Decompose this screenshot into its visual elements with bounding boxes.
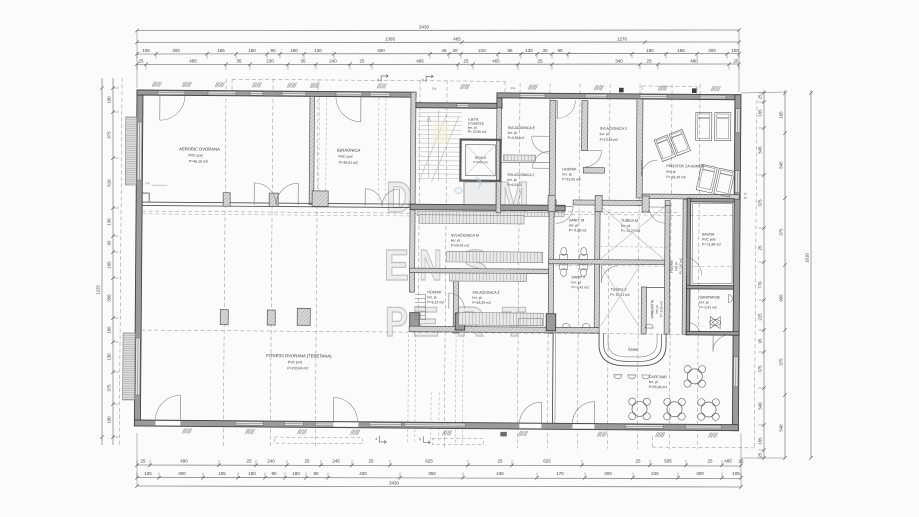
cups at bar: [614, 375, 622, 379]
svg-text:SAUNA: SAUNA: [702, 232, 715, 236]
staircase cut line: [419, 114, 447, 180]
window top wall: [208, 91, 236, 95]
svg-text:130: 130: [314, 48, 322, 53]
svg-text:180: 180: [646, 48, 654, 53]
wall hodnik west / svlacionica E-2 east: [549, 100, 556, 205]
svg-text:FITNESS DVORANA (TERETANA): FITNESS DVORANA (TERETANA): [266, 353, 332, 359]
wall bracket left: [142, 193, 149, 202]
svg-text:905: 905: [779, 294, 784, 302]
dashed offset line right of building: [754, 100, 757, 448]
svg-text:245: 245: [332, 459, 340, 464]
stairs in hodnik lower left: [415, 293, 425, 295]
svg-text:230: 230: [266, 59, 274, 64]
svg-text:300: 300: [696, 471, 704, 476]
cafe table: [632, 401, 647, 416]
svg-text:300: 300: [708, 48, 716, 53]
lounge chair pair B: [654, 129, 690, 161]
lounge chair pair C: [696, 164, 735, 197]
elevator DIZALO shaft: [460, 140, 500, 181]
svg-text:P= 8,28 m2: P= 8,28 m2: [569, 228, 587, 232]
svg-text:430: 430: [359, 471, 367, 476]
svg-text:3430: 3430: [419, 25, 430, 30]
svg-text:SPREMIŠTE: SPREMIŠTE: [649, 299, 654, 319]
svg-text:15a: 15a: [511, 86, 516, 90]
svg-text:25: 25: [707, 459, 713, 464]
dashed pair lines igraonica east: [377, 98, 380, 202]
faint blue scan mark 2: [475, 178, 481, 189]
window top wall: [250, 92, 263, 96]
door tusevi area: [649, 206, 665, 208]
svg-text:P=9,56 m2: P=9,56 m2: [508, 136, 525, 140]
svg-text:P= 20,66 m2: P= 20,66 m2: [468, 130, 487, 134]
svg-text:375: 375: [779, 358, 784, 366]
svg-text:375: 375: [758, 365, 763, 373]
svg-text:20: 20: [452, 48, 458, 53]
exterior wall right: [732, 95, 741, 431]
toilet sanit M 2: [580, 254, 588, 259]
faint blue scan mark: [454, 187, 462, 193]
svg-text:SANIT Ž: SANIT Ž: [572, 274, 587, 279]
window bottom wall: [625, 425, 663, 429]
wall column: [455, 313, 465, 330]
cafe table: [701, 402, 716, 417]
svg-text:HODNIK: HODNIK: [427, 290, 442, 294]
svg-text:130: 130: [525, 48, 533, 53]
window right wall upper: [735, 109, 740, 133]
svg-text:25: 25: [537, 59, 543, 64]
svg-text:485: 485: [724, 459, 732, 464]
svg-text:ker. pl.: ker. pl.: [655, 304, 659, 313]
double door partition second: [364, 189, 366, 206]
svg-text:130: 130: [107, 353, 112, 361]
svg-text:225: 225: [651, 471, 659, 476]
svg-text:165: 165: [779, 111, 784, 119]
section marker b top: [426, 75, 433, 83]
column sanit wall: [642, 196, 649, 212]
svg-text:545: 545: [779, 161, 784, 169]
door svlacionica 3: [586, 150, 602, 152]
svg-text:175: 175: [145, 181, 150, 185]
svg-text:PVC pod: PVC pod: [288, 360, 302, 364]
svg-text:1270: 1270: [617, 37, 628, 42]
svg-text:350: 350: [107, 294, 112, 302]
svg-text:a: a: [377, 78, 379, 82]
svg-text:185: 185: [217, 48, 225, 53]
svg-text:P= 6,41 m2: P= 6,41 m2: [571, 285, 589, 289]
locker strip below wall: [417, 211, 564, 217]
svg-text:PVC pod: PVC pod: [188, 153, 202, 157]
sauna wall bottom: [686, 285, 733, 289]
svg-text:P: P: [385, 298, 408, 345]
toilet sanitarije: [710, 317, 720, 329]
svg-text:b: b: [422, 78, 424, 82]
svg-text:HODNIK: HODNIK: [562, 167, 577, 171]
svg-text:P=46,15 m2: P=46,15 m2: [189, 159, 208, 163]
svg-text:P= 26,43 m2: P= 26,43 m2: [666, 175, 685, 179]
svg-text:AEROBIC DVORANA: AEROBIC DVORANA: [179, 146, 220, 151]
svg-text:95: 95: [507, 48, 513, 53]
svg-text:E: E: [384, 241, 409, 290]
svg-text:25: 25: [138, 59, 144, 64]
svg-text:375: 375: [107, 384, 112, 392]
window bottom wall: [315, 422, 334, 426]
svg-text:30: 30: [542, 48, 548, 53]
sink sanitarije: [728, 295, 732, 303]
door opening top igraonica: [336, 92, 362, 96]
dashed canopy box bottom right: [432, 438, 483, 444]
svg-text:15a: 15a: [432, 86, 437, 90]
window top wall: [282, 92, 306, 96]
svg-text:P=6,13 m2: P=6,13 m2: [427, 300, 444, 304]
svg-text:105: 105: [144, 471, 152, 476]
shower cross tusevi Z: [600, 266, 639, 327]
svg-text:PVC pod: PVC pod: [338, 155, 352, 159]
toilet sanit Z 1: [560, 264, 568, 269]
svg-text:P=18,39 m2: P=18,39 m2: [472, 301, 491, 305]
svg-text:100: 100: [731, 48, 739, 53]
top dimension row bottom values: [137, 63, 739, 66]
svg-text:a: a: [375, 437, 377, 441]
glass partition wall below halls: [142, 202, 410, 204]
door hodnik-v to cafe: [686, 322, 688, 334]
wall prostor za odmor bottom: [642, 194, 739, 199]
window top wall: [585, 94, 607, 98]
wall sanit top middle segment: [573, 200, 649, 206]
svg-text:545: 545: [758, 146, 763, 154]
svg-text:610: 610: [107, 179, 112, 187]
svg-text:1010: 1010: [805, 253, 810, 263]
svg-text:375: 375: [779, 228, 784, 236]
svg-text:b: b: [419, 437, 421, 441]
top dimension row segment values: [137, 53, 739, 56]
faint yellow tint staircase: [433, 121, 449, 143]
svg-text:ker. pl.: ker. pl.: [427, 295, 437, 299]
top dimension line overall 3430: [137, 29, 739, 32]
door opening bottom wall cafe left: [519, 424, 541, 429]
svg-text:465: 465: [492, 59, 500, 64]
double door in partition: [253, 183, 255, 205]
wall hodnik east / svlacionica 3 west: [582, 100, 588, 150]
section marker a bottom: [379, 436, 386, 444]
svg-text:PROSTOR ZA ODMOR: PROSTOR ZA ODMOR: [666, 164, 704, 168]
svg-text:105: 105: [732, 471, 740, 476]
window bottom wall: [369, 423, 401, 427]
svg-text:240: 240: [267, 459, 275, 464]
exterior wall bottom: [134, 420, 738, 431]
window bottom wall: [235, 421, 263, 425]
svg-text:P= 11,88 m2: P= 11,88 m2: [702, 242, 721, 246]
bench row svlacionica M middle: [447, 251, 543, 262]
svg-text:P=46,61 m2: P=46,61 m2: [339, 161, 358, 165]
svg-text:25: 25: [758, 94, 763, 99]
svg-text:180: 180: [248, 471, 256, 476]
wall hodnik vertical - sauna: [682, 199, 688, 334]
wall svlacionica3 - prostor za odmor: [636, 99, 643, 198]
sauna inner line: [692, 203, 733, 283]
door opening top aerobic: [158, 91, 185, 95]
svg-text:165: 165: [758, 109, 763, 117]
door sauna: [686, 257, 688, 275]
bench row svlacionica Z: [458, 313, 543, 326]
exterior wall top left section: [137, 90, 416, 97]
svg-text:P=5,06 m2: P=5,06 m2: [473, 160, 488, 164]
svg-text:540: 540: [758, 402, 763, 410]
svg-text:N: N: [419, 241, 442, 290]
horizontal axis dashed lines: [142, 211, 737, 216]
window top wall: [640, 95, 667, 99]
svg-text:25: 25: [368, 459, 374, 464]
svg-text:480: 480: [690, 59, 698, 64]
svg-text:TUŠEVI M: TUŠEVI M: [621, 218, 638, 223]
partition column: [223, 193, 230, 207]
svg-text:P=55,99 m2: P=55,99 m2: [649, 385, 668, 389]
svg-text:SANITARIJE: SANITARIJE: [699, 295, 720, 299]
door arc bottom cafe left: [540, 402, 542, 424]
svg-text:P= 7,97 m2: P= 7,97 m2: [679, 258, 683, 274]
dashed pair below svl block west: [407, 334, 410, 442]
wall below staircase and svlacionice: [410, 204, 565, 211]
svg-text:IGRAONICA: IGRAONICA: [337, 148, 361, 153]
bottom dimension overall 3430: [137, 486, 741, 487]
section marker b bottom: [423, 436, 430, 444]
svg-text:185: 185: [218, 471, 226, 476]
vertical axis dashed lines: [223, 79, 226, 446]
svg-text:95: 95: [107, 240, 112, 245]
svg-text:ker. pl.: ker. pl.: [507, 178, 517, 182]
cafe table: [687, 369, 702, 384]
door arc bottom fitness left: [179, 395, 181, 420]
dashed pair below hodnik wall: [430, 392, 432, 440]
svg-text:P=13,43 m2: P=13,43 m2: [600, 138, 619, 142]
svg-text:P=233,04 m2: P=233,04 m2: [287, 366, 308, 370]
svg-text:300: 300: [178, 471, 186, 476]
door hodnik to svlacionica Z: [448, 293, 450, 308]
svg-text:25: 25: [738, 459, 744, 464]
svg-text:S: S: [462, 241, 488, 290]
door tusevi Z: [601, 266, 603, 283]
window bottom wall: [284, 422, 303, 426]
svg-text:P= 5,41 m2: P= 5,41 m2: [699, 305, 717, 309]
svg-text:ker. pl.: ker. pl.: [649, 380, 659, 384]
svg-text:35: 35: [236, 59, 242, 64]
wall staircase step right: [497, 98, 502, 108]
svg-text:240: 240: [329, 59, 337, 64]
svg-text:490: 490: [180, 459, 188, 464]
svg-text:375: 375: [758, 199, 763, 207]
svg-text:SVLAČIONICA Ž: SVLAČIONICA Ž: [472, 290, 500, 295]
window marks bottom: [182, 428, 184, 433]
door top wall corridor: [556, 100, 558, 118]
svg-text:ker. pl.: ker. pl.: [472, 296, 482, 300]
wall hodnik - svlacionica Z: [453, 273, 458, 333]
svg-text:165: 165: [107, 261, 112, 269]
svg-text:300: 300: [172, 48, 180, 53]
window top wall: [520, 94, 545, 98]
exterior wall top right section: [497, 93, 740, 100]
svg-text:ker. pl.: ker. pl.: [508, 131, 518, 135]
svg-text:ker. pl.: ker. pl.: [572, 280, 582, 284]
svg-text:25: 25: [758, 245, 763, 250]
svg-text:225: 225: [758, 313, 763, 321]
dashed pair below svlZ wall: [454, 335, 457, 443]
sauna wall left: [686, 198, 690, 288]
partition column: [269, 193, 278, 207]
sinks along wall lower: [562, 323, 570, 327]
svg-text:3430: 3430: [389, 481, 400, 486]
svg-text:625: 625: [543, 459, 551, 464]
shower cross tusevi M: [601, 207, 664, 259]
svg-text:105: 105: [142, 48, 150, 53]
svg-text:TUŠEVI Ž: TUŠEVI Ž: [610, 287, 627, 292]
small marker below bottom wall: [500, 432, 507, 437]
exterior wall left: [134, 90, 143, 425]
svg-text:45: 45: [441, 48, 447, 53]
wall sanit - tusevi: [594, 205, 600, 328]
column sanit wall: [595, 196, 602, 212]
wall sanit top right segment: [665, 201, 670, 206]
svg-text:DIZALO: DIZALO: [475, 156, 487, 160]
svg-text:185: 185: [107, 326, 112, 334]
svg-text:SVLAČIONICA E: SVLAČIONICA E: [508, 125, 536, 130]
svg-text:90: 90: [271, 471, 277, 476]
door arc bottom fitness second: [332, 398, 334, 422]
svg-text:435: 435: [496, 471, 504, 476]
svg-text:ker. pl.: ker. pl.: [699, 300, 709, 304]
wall staircase step left hatched: [410, 92, 416, 204]
svg-text:505: 505: [664, 459, 672, 464]
window left wall upper: [137, 122, 142, 180]
svg-text:25: 25: [359, 59, 365, 64]
door arc top igraonica: [360, 97, 362, 122]
wall sanitarije left: [686, 289, 690, 335]
svg-text:485: 485: [189, 59, 197, 64]
bench tusevi small: [518, 319, 542, 326]
fitness column: [297, 308, 310, 325]
svg-text:165: 165: [758, 437, 763, 445]
svg-text:25: 25: [463, 59, 469, 64]
door opening bottom wall left: [155, 421, 180, 426]
dashed canopy outline above staircase: [232, 79, 505, 81]
svg-text:25: 25: [246, 459, 252, 464]
wall sanit top segment: [548, 200, 556, 205]
svg-text:180: 180: [292, 471, 300, 476]
door sanit M: [556, 205, 573, 207]
svg-text:P= 2,55 m2: P= 2,55 m2: [659, 301, 663, 317]
svg-text:130: 130: [107, 218, 112, 226]
wall svlacionice - sanit rooms: [548, 204, 554, 333]
dashed offset line left of building: [119, 78, 122, 445]
fitness column: [267, 310, 275, 325]
svg-text:540: 540: [779, 424, 784, 432]
svg-text:25: 25: [140, 459, 146, 464]
svg-text:185: 185: [677, 48, 685, 53]
svg-text:1385: 1385: [385, 37, 396, 42]
svg-text:100: 100: [107, 416, 112, 424]
window left wall lower: [135, 338, 140, 395]
bottom dimension row values: [137, 465, 741, 466]
column sanit wall: [548, 195, 555, 211]
dashed pair lines igraonica west: [318, 97, 321, 191]
svg-text:25: 25: [635, 459, 641, 464]
window top wall: [370, 93, 390, 97]
wall bottom of changing rooms: [409, 326, 599, 333]
door svlacionica E: [532, 135, 549, 137]
right dimension column outer 1010: [810, 90, 812, 458]
svg-text:ker. pl.: ker. pl.: [666, 170, 676, 174]
section marker a top: [381, 74, 388, 82]
svg-text:90: 90: [270, 48, 276, 53]
svg-text:ker. pl.: ker. pl.: [674, 262, 678, 271]
door arc top aerobic: [159, 95, 161, 120]
svg-text:400: 400: [377, 48, 385, 53]
door arc bottom cafe right: [593, 402, 595, 424]
svg-text:35: 35: [300, 59, 306, 64]
window bottom wall long: [404, 423, 465, 427]
right dimension column second: [784, 90, 786, 458]
svg-text:100: 100: [107, 96, 112, 104]
window right wall middle: [735, 171, 740, 193]
svg-text:625: 625: [425, 459, 433, 464]
svg-text:465: 465: [453, 37, 461, 42]
door svlacionica 2: [532, 167, 549, 169]
bench row svlacionica M top: [419, 215, 524, 224]
svg-text:90: 90: [557, 48, 563, 53]
wall fitness - cafe divider: [551, 333, 554, 423]
wall between aerobic and igraonica: [309, 96, 314, 204]
cafe table: [667, 402, 682, 417]
wall staircase right / svlacionica E left: [496, 108, 501, 213]
toilet sanit M 1: [560, 254, 568, 259]
svg-text:170: 170: [556, 471, 564, 476]
svg-text:210: 210: [478, 48, 486, 53]
wall column at divider: [546, 314, 556, 331]
svg-text:P=9,54 -2: P=9,54 -2: [507, 183, 522, 187]
svg-text:ker. pl.: ker. pl.: [562, 172, 572, 176]
svg-text:PVC pod: PVC pod: [702, 237, 716, 241]
staircase up arrow: [427, 118, 429, 178]
hatched terrace strip left lower: [123, 333, 136, 400]
svg-text:25: 25: [758, 452, 763, 457]
svg-text:ker. pl.: ker. pl.: [600, 132, 610, 136]
wall tusevi - hodnik vertical: [664, 206, 670, 335]
svg-text:ker. pl.: ker. pl.: [451, 238, 461, 242]
staircase treads: [418, 111, 462, 113]
svg-text:180: 180: [290, 48, 298, 53]
fitness column: [220, 310, 228, 325]
window top wall: [700, 95, 726, 99]
dashed canopy outline top right: [642, 85, 697, 87]
window staircase: [457, 104, 469, 108]
svg-text:CAFE BAR: CAFE BAR: [649, 375, 667, 379]
svg-text:95: 95: [758, 338, 763, 343]
wall sanitarije bottom: [686, 331, 739, 335]
left dimension column: [101, 78, 103, 445]
door opening bottom wall cafe right: [572, 424, 594, 429]
bottom dimension second row: [137, 478, 741, 479]
svg-text:SANIT. M: SANIT. M: [569, 218, 584, 222]
dashed line sanit block: [548, 212, 679, 213]
wall spremiste west: [641, 287, 646, 334]
svg-text:P=23,41 m2: P=23,41 m2: [451, 243, 470, 247]
svg-text:80: 80: [313, 471, 319, 476]
svg-text:ker. pl.: ker. pl.: [569, 223, 579, 227]
dashed terrace outline bottom right: [652, 446, 754, 449]
svg-text:770: 770: [758, 281, 763, 289]
window right wall lower: [734, 357, 739, 387]
svg-text:375: 375: [107, 131, 112, 139]
right dimension column inner: [763, 90, 765, 458]
wall svlacionicaM - svlacionicaZ: [410, 268, 549, 274]
